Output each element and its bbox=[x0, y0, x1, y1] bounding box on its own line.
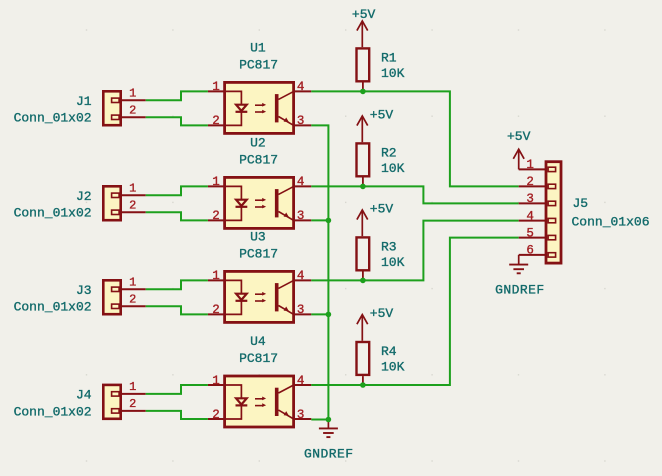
svg-text:Conn_01x06: Conn_01x06 bbox=[572, 214, 650, 229]
resistor R1 bbox=[357, 48, 405, 91]
U2 LED bbox=[225, 186, 248, 220]
svg-text:10K: 10K bbox=[381, 66, 405, 81]
optocoupler U4 (PC817) bbox=[208, 334, 311, 427]
svg-text:3: 3 bbox=[297, 303, 305, 317]
U1 phototransistor bbox=[275, 91, 294, 125]
junction at R1 bottom bbox=[360, 89, 366, 95]
svg-text:2: 2 bbox=[129, 292, 136, 306]
svg-text:2: 2 bbox=[129, 397, 136, 411]
J3 pin 1 bbox=[112, 275, 146, 291]
J4 pin 2 bbox=[112, 397, 146, 413]
svg-text:Conn_01x02: Conn_01x02 bbox=[14, 111, 92, 126]
svg-text:R2: R2 bbox=[381, 145, 397, 160]
J1 pin 1 bbox=[112, 86, 146, 102]
connector J1 (Conn_01x02) bbox=[14, 86, 146, 125]
wire J4.2 to U4.2 bbox=[146, 411, 208, 419]
resistor R4 bbox=[357, 342, 405, 385]
svg-text:J2: J2 bbox=[76, 189, 92, 204]
J2 pin 2 bbox=[112, 198, 146, 214]
wire J4.1 to U4.1 bbox=[146, 385, 208, 394]
U2 phototransistor bbox=[275, 186, 294, 220]
svg-text:2: 2 bbox=[212, 114, 220, 128]
svg-text:Conn_01x02: Conn_01x02 bbox=[14, 206, 92, 221]
J5 pin 4 bbox=[519, 209, 556, 223]
optocoupler U2 (PC817) bbox=[208, 136, 311, 229]
svg-text:1: 1 bbox=[129, 275, 136, 289]
U4 pin 3 bbox=[294, 408, 312, 422]
svg-text:1: 1 bbox=[212, 269, 220, 283]
svg-text:1: 1 bbox=[212, 175, 220, 189]
U1 pin 2 bbox=[208, 114, 225, 128]
svg-text:GNDREF: GNDREF bbox=[495, 283, 545, 298]
svg-text:+5V: +5V bbox=[370, 306, 394, 321]
svg-text:U1: U1 bbox=[250, 41, 266, 56]
wire U3.3 stub bbox=[311, 313, 328, 315]
U2 pin 4 bbox=[294, 175, 312, 189]
svg-text:6: 6 bbox=[526, 244, 534, 258]
svg-text:U4: U4 bbox=[250, 334, 266, 349]
power +5V (above R2) bbox=[357, 107, 394, 142]
svg-text:10K: 10K bbox=[381, 255, 405, 270]
power +5V (J5 pin 1) bbox=[507, 129, 531, 170]
J5 pin 2 bbox=[519, 175, 556, 189]
U2 pin 2 bbox=[208, 209, 225, 223]
svg-text:PC817: PC817 bbox=[239, 58, 278, 73]
junction at R2 bottom bbox=[360, 184, 366, 190]
U3 LED bbox=[225, 280, 248, 314]
junction at R3 bottom bbox=[360, 278, 366, 284]
svg-text:1: 1 bbox=[129, 181, 136, 195]
svg-text:10K: 10K bbox=[381, 360, 405, 375]
svg-text:1: 1 bbox=[129, 380, 136, 394]
U4 light arrows bbox=[255, 397, 266, 408]
svg-text:3: 3 bbox=[297, 209, 305, 223]
U3 light arrows bbox=[255, 292, 266, 303]
wire J3.2 to U3.2 bbox=[146, 306, 208, 314]
svg-text:3: 3 bbox=[526, 192, 534, 206]
ground GNDREF (emitter bus) bbox=[304, 420, 354, 462]
U3 pin 2 bbox=[208, 303, 225, 317]
svg-text:+5V: +5V bbox=[352, 7, 376, 22]
junction at U3.3 bbox=[326, 312, 332, 318]
U1 LED bbox=[225, 91, 248, 125]
svg-text:2: 2 bbox=[212, 303, 220, 317]
wire J1.1 to U1.1 bbox=[146, 91, 208, 100]
svg-text:U2: U2 bbox=[250, 136, 266, 151]
J5 pin 3 bbox=[519, 192, 556, 206]
J5 pin 6 bbox=[519, 244, 556, 258]
U1 pin 4 bbox=[294, 80, 312, 94]
wire U2.4 to R2 and J5.3 bbox=[311, 186, 518, 203]
svg-text:J1: J1 bbox=[76, 94, 92, 109]
U3 pin 4 bbox=[294, 269, 312, 283]
svg-text:+5V: +5V bbox=[507, 129, 531, 144]
U1 pin 1 bbox=[208, 80, 225, 94]
svg-text:3: 3 bbox=[297, 114, 305, 128]
svg-text:1: 1 bbox=[129, 86, 136, 100]
junction at U2.3 bbox=[326, 218, 332, 224]
ground GNDREF (J5 pin 6) bbox=[495, 255, 545, 298]
J3 pin 2 bbox=[112, 292, 146, 308]
connector J5 (Conn_01x06) bbox=[519, 158, 650, 263]
svg-text:1: 1 bbox=[526, 158, 534, 172]
resistor R3 bbox=[357, 237, 405, 280]
J1 pin 2 bbox=[112, 103, 146, 119]
power +5V (above R4) bbox=[357, 306, 394, 341]
J4 pin 1 bbox=[112, 380, 146, 396]
svg-text:2: 2 bbox=[526, 175, 534, 189]
J5 pin 5 bbox=[519, 226, 556, 240]
svg-text:2: 2 bbox=[129, 198, 136, 212]
svg-text:2: 2 bbox=[129, 103, 136, 117]
power +5V (above R1) bbox=[352, 7, 376, 47]
connector J3 (Conn_01x02) bbox=[14, 275, 146, 314]
U1 light arrows bbox=[255, 103, 266, 114]
svg-text:U3: U3 bbox=[250, 230, 266, 245]
svg-text:2: 2 bbox=[212, 209, 220, 223]
svg-text:10K: 10K bbox=[381, 161, 405, 176]
svg-text:1: 1 bbox=[212, 374, 220, 388]
svg-text:5: 5 bbox=[526, 226, 534, 240]
U3 pin 1 bbox=[208, 269, 225, 283]
wire U1.4 to R1 and J5.2 bbox=[311, 91, 518, 186]
connector J4 (Conn_01x02) bbox=[14, 380, 146, 419]
svg-text:3: 3 bbox=[297, 408, 305, 422]
connector J2 (Conn_01x02) bbox=[14, 181, 146, 220]
svg-text:J3: J3 bbox=[76, 283, 92, 298]
wire U4.3 stub bbox=[311, 419, 328, 421]
junction at U4.3 bbox=[326, 417, 332, 423]
wire J3.1 to U3.1 bbox=[146, 280, 208, 289]
resistor R2 bbox=[357, 143, 405, 186]
svg-text:4: 4 bbox=[526, 209, 534, 223]
svg-text:PC817: PC817 bbox=[239, 247, 278, 262]
svg-text:PC817: PC817 bbox=[239, 153, 278, 168]
J5 pin 1 bbox=[519, 158, 556, 172]
U2 pin 1 bbox=[208, 175, 225, 189]
wire J2.1 to U2.1 bbox=[146, 186, 208, 195]
wire U1.3 emitter bus to GNDREF bbox=[311, 125, 328, 419]
wire J2.2 to U2.2 bbox=[146, 212, 208, 220]
svg-text:R1: R1 bbox=[381, 50, 397, 65]
svg-text:4: 4 bbox=[297, 175, 305, 189]
svg-text:+5V: +5V bbox=[370, 107, 394, 122]
svg-text:GNDREF: GNDREF bbox=[304, 446, 354, 461]
wire U4.4 to R4 and J5.5 bbox=[311, 238, 518, 385]
svg-text:J4: J4 bbox=[76, 388, 92, 403]
svg-text:PC817: PC817 bbox=[239, 351, 278, 366]
U3 pin 3 bbox=[294, 303, 312, 317]
junction at R4 bottom bbox=[360, 382, 366, 388]
svg-text:Conn_01x02: Conn_01x02 bbox=[14, 404, 92, 419]
U4 pin 2 bbox=[208, 408, 225, 422]
optocoupler U3 (PC817) bbox=[208, 230, 311, 323]
U4 pin 4 bbox=[294, 374, 312, 388]
svg-text:R4: R4 bbox=[381, 344, 397, 359]
U4 phototransistor bbox=[275, 385, 294, 419]
svg-text:4: 4 bbox=[297, 80, 305, 94]
svg-text:4: 4 bbox=[297, 374, 305, 388]
U1 pin 3 bbox=[294, 114, 312, 128]
wire U2.3 stub bbox=[311, 219, 328, 221]
svg-text:4: 4 bbox=[297, 269, 305, 283]
U2 pin 3 bbox=[294, 209, 312, 223]
wire J1.2 to U1.2 bbox=[146, 117, 208, 125]
svg-text:+5V: +5V bbox=[370, 201, 394, 216]
U3 phototransistor bbox=[275, 280, 294, 314]
svg-text:Conn_01x02: Conn_01x02 bbox=[14, 300, 92, 315]
U2 light arrows bbox=[255, 198, 266, 209]
power +5V (above R3) bbox=[357, 201, 394, 236]
J2 pin 1 bbox=[112, 181, 146, 197]
optocoupler U1 (PC817) bbox=[208, 41, 311, 134]
U4 LED bbox=[225, 385, 248, 419]
svg-text:2: 2 bbox=[212, 408, 220, 422]
svg-text:J5: J5 bbox=[573, 196, 589, 211]
svg-text:R3: R3 bbox=[381, 239, 397, 254]
wire U3.4 to R3 and J5.4 bbox=[311, 221, 518, 281]
U4 pin 1 bbox=[208, 374, 225, 388]
svg-text:1: 1 bbox=[212, 80, 220, 94]
